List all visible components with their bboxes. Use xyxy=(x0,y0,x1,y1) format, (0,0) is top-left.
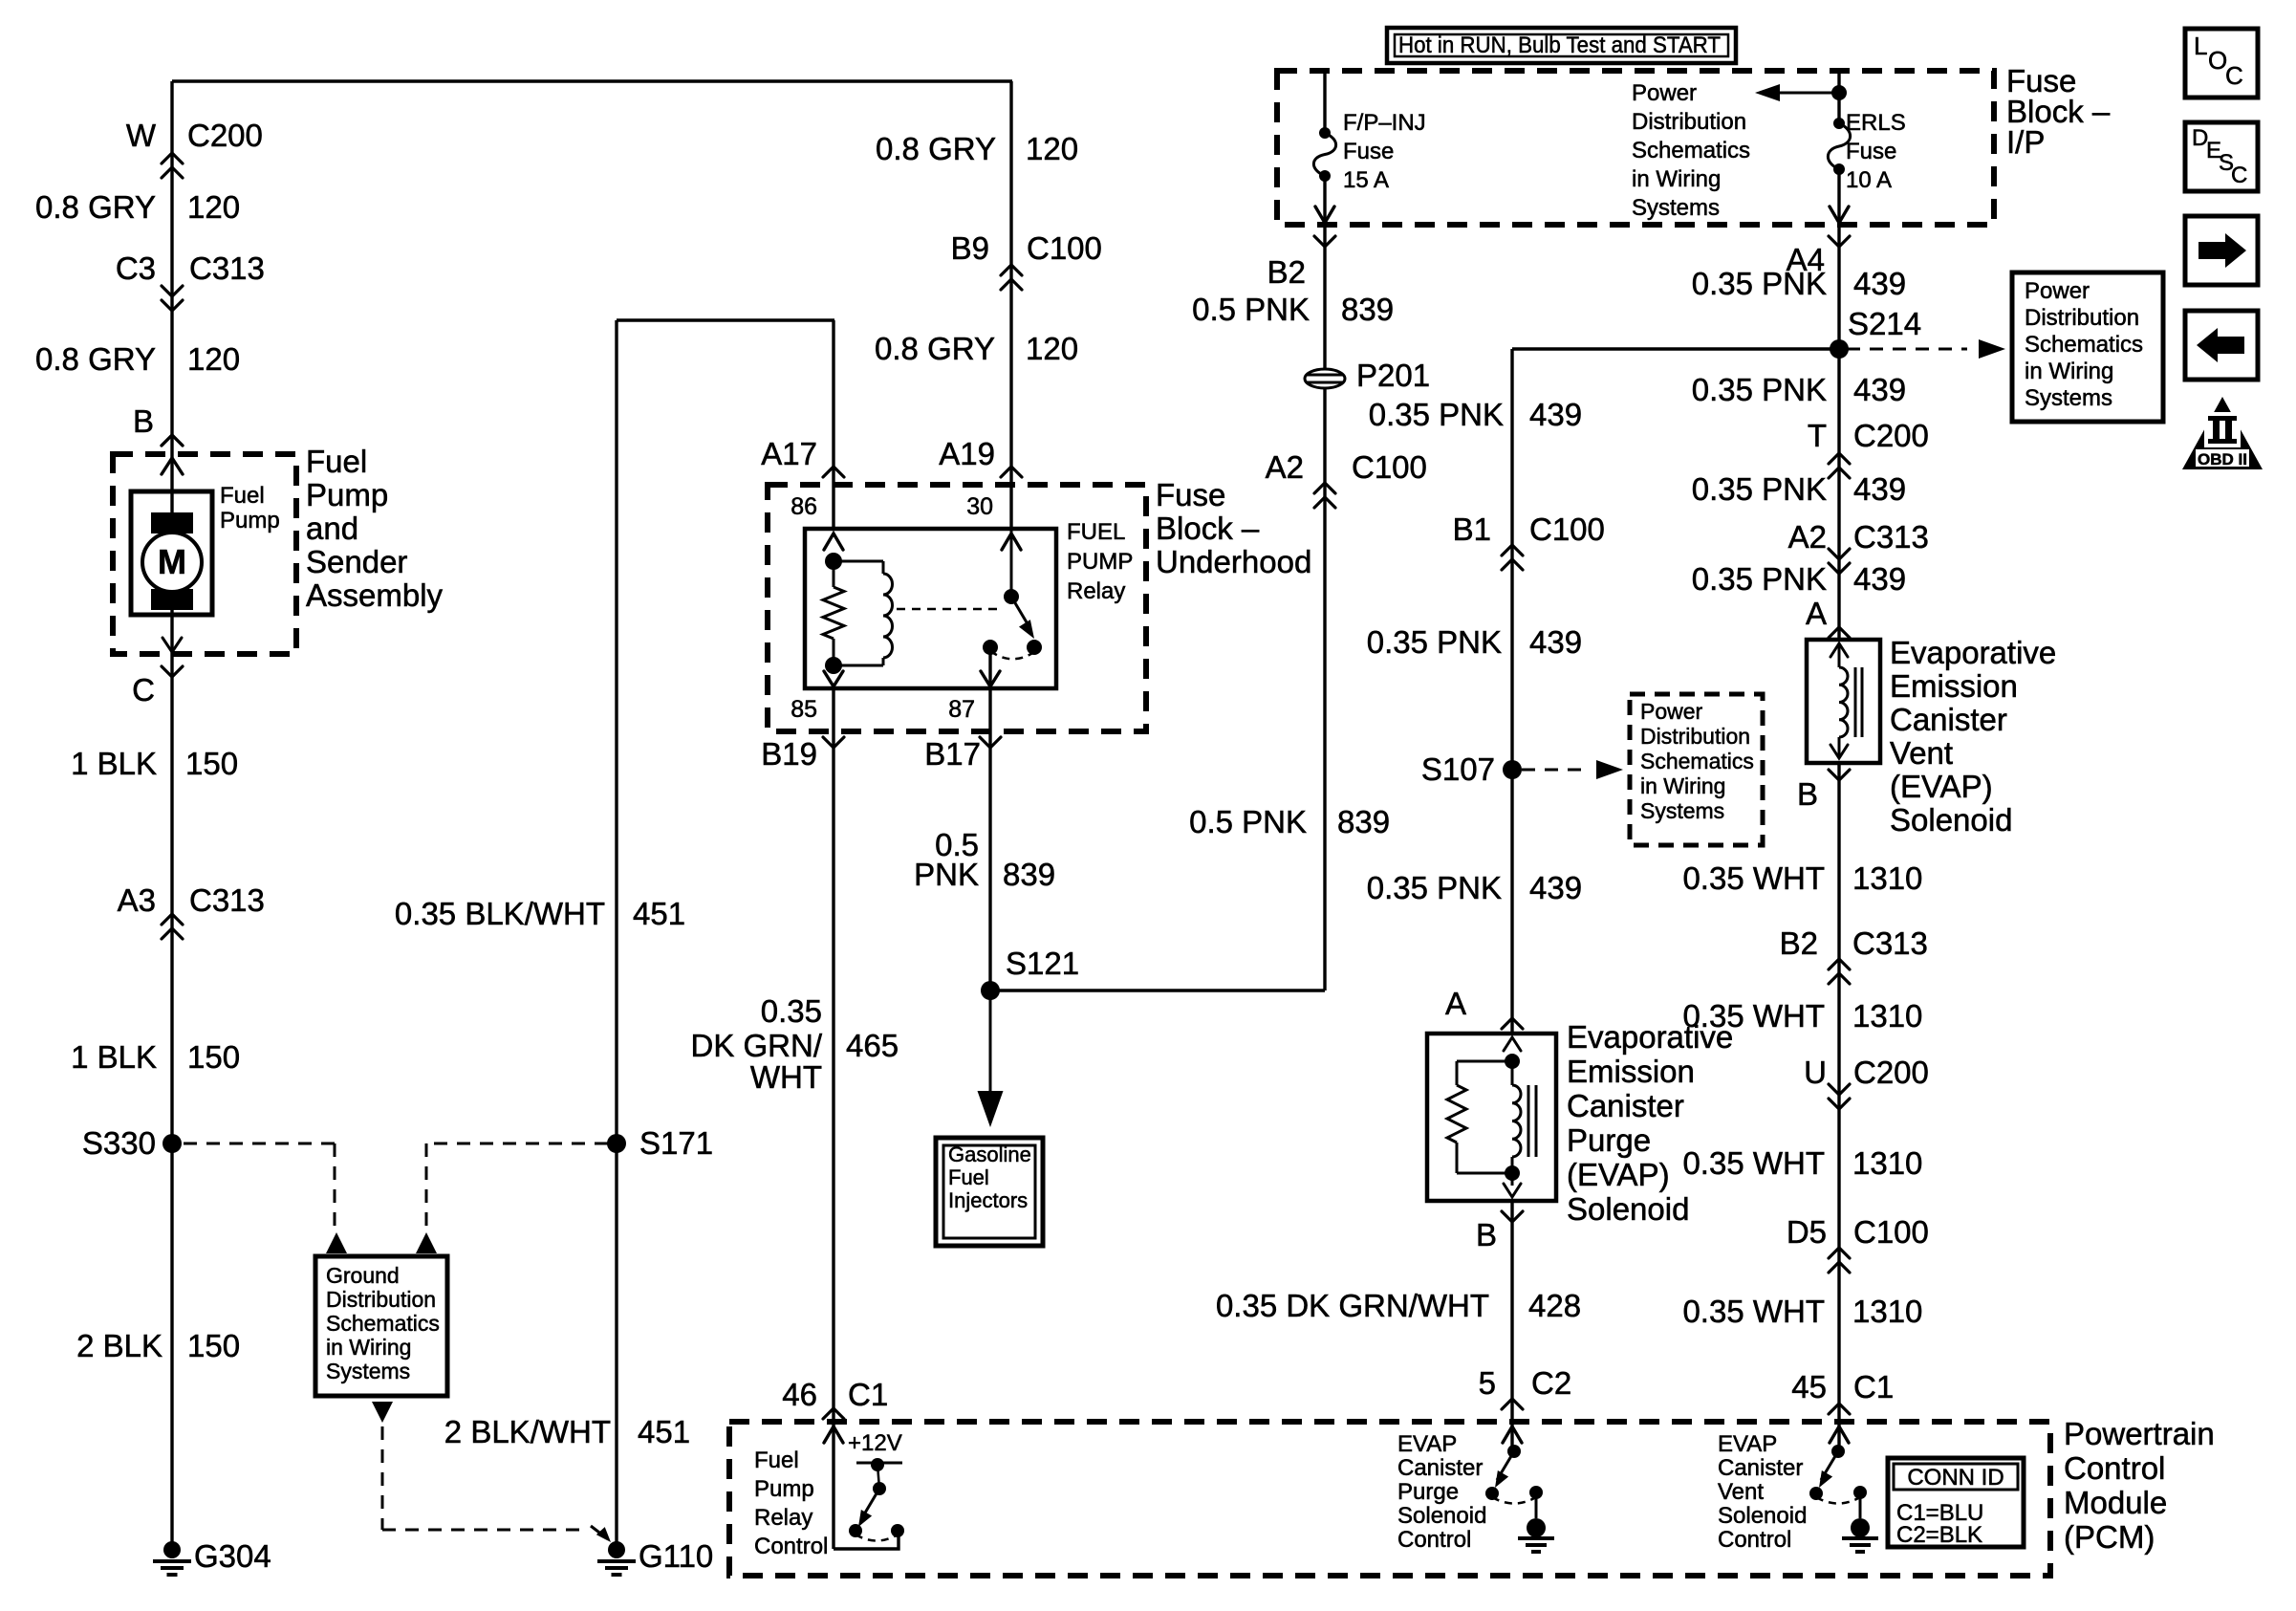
svg-text:86: 86 xyxy=(791,493,817,520)
svg-text:439: 439 xyxy=(1529,870,1582,905)
svg-text:B: B xyxy=(133,403,154,439)
svg-text:Control: Control xyxy=(1397,1527,1471,1553)
svg-text:Systems: Systems xyxy=(326,1359,410,1383)
svg-text:0.35 BLK/WHT: 0.35 BLK/WHT xyxy=(395,896,605,931)
svg-text:C1: C1 xyxy=(1853,1369,1894,1404)
svg-text:C100: C100 xyxy=(1529,512,1605,547)
svg-text:Vent: Vent xyxy=(1718,1479,1764,1505)
svg-text:A17: A17 xyxy=(761,436,817,471)
svg-text:Power: Power xyxy=(1632,80,1697,106)
svg-text:30: 30 xyxy=(966,493,993,520)
svg-text:2 BLK: 2 BLK xyxy=(76,1328,162,1363)
svg-text:0.35 PNK: 0.35 PNK xyxy=(1367,870,1502,905)
svg-text:DK GRN/: DK GRN/ xyxy=(690,1028,822,1063)
svg-text:CONN ID: CONN ID xyxy=(1907,1465,2004,1491)
svg-text:0.35: 0.35 xyxy=(761,993,822,1029)
svg-text:1310: 1310 xyxy=(1852,1294,1922,1329)
svg-text:0.35 WHT: 0.35 WHT xyxy=(1682,1145,1825,1181)
svg-text:451: 451 xyxy=(638,1414,690,1449)
svg-text:Ground: Ground xyxy=(326,1263,400,1288)
svg-text:A2: A2 xyxy=(1266,449,1304,485)
svg-text:Fuel: Fuel xyxy=(220,483,265,509)
svg-text:0.35 PNK: 0.35 PNK xyxy=(1692,561,1827,597)
svg-text:C: C xyxy=(2225,61,2243,90)
svg-text:S214: S214 xyxy=(1848,306,1921,341)
svg-text:C200: C200 xyxy=(1853,1055,1929,1090)
svg-text:in Wiring: in Wiring xyxy=(1632,166,1721,192)
svg-text:Relay: Relay xyxy=(1067,578,1125,604)
svg-text:C3: C3 xyxy=(116,250,156,286)
svg-text:439: 439 xyxy=(1853,471,1906,507)
svg-text:1310: 1310 xyxy=(1852,998,1922,1034)
svg-text:S107: S107 xyxy=(1421,751,1495,787)
svg-text:A4: A4 xyxy=(1787,242,1825,277)
svg-text:120: 120 xyxy=(187,341,240,377)
svg-text:0.35 PNK: 0.35 PNK xyxy=(1692,372,1827,407)
svg-text:PNK: PNK xyxy=(914,857,979,892)
svg-text:(PCM): (PCM) xyxy=(2064,1519,2155,1555)
svg-text:C313: C313 xyxy=(1853,519,1929,555)
svg-text:B2: B2 xyxy=(1267,254,1306,290)
svg-text:Distribution: Distribution xyxy=(1640,724,1750,749)
svg-text:(EVAP): (EVAP) xyxy=(1567,1157,1670,1192)
svg-text:OBD II: OBD II xyxy=(2198,450,2247,468)
svg-text:FUEL: FUEL xyxy=(1067,519,1125,545)
svg-text:U: U xyxy=(1804,1055,1827,1090)
svg-text:120: 120 xyxy=(1026,331,1078,366)
svg-text:Hot in RUN, Bulb Test and STAR: Hot in RUN, Bulb Test and START xyxy=(1398,33,1721,58)
svg-text:I/P: I/P xyxy=(2006,124,2045,160)
svg-text:Fuel: Fuel xyxy=(754,1448,799,1473)
svg-text:439: 439 xyxy=(1853,561,1906,597)
svg-text:C313: C313 xyxy=(1852,925,1928,961)
svg-text:Emission: Emission xyxy=(1890,668,2018,704)
svg-text:Powertrain: Powertrain xyxy=(2064,1416,2215,1451)
svg-text:(EVAP): (EVAP) xyxy=(1890,769,1993,804)
svg-text:Block –: Block – xyxy=(1156,511,1260,546)
svg-text:0.35 PNK: 0.35 PNK xyxy=(1369,397,1504,432)
svg-text:C100: C100 xyxy=(1853,1214,1929,1250)
svg-text:A: A xyxy=(1806,596,1827,631)
svg-text:15 A: 15 A xyxy=(1343,167,1389,193)
svg-text:Solenoid: Solenoid xyxy=(1718,1503,1807,1529)
svg-text:Control: Control xyxy=(754,1534,828,1559)
svg-text:Evaporative: Evaporative xyxy=(1890,635,2056,670)
svg-text:428: 428 xyxy=(1528,1288,1581,1323)
svg-text:0.35 WHT: 0.35 WHT xyxy=(1682,1294,1825,1329)
svg-text:M: M xyxy=(158,542,186,581)
svg-text:B19: B19 xyxy=(761,736,817,772)
svg-text:1 BLK: 1 BLK xyxy=(71,746,157,781)
svg-text:C200: C200 xyxy=(1853,418,1929,453)
svg-text:46: 46 xyxy=(782,1377,817,1412)
svg-text:Underhood: Underhood xyxy=(1156,544,1311,579)
svg-text:C100: C100 xyxy=(1352,449,1427,485)
svg-text:in Wiring: in Wiring xyxy=(326,1335,411,1360)
svg-text:2 BLK/WHT: 2 BLK/WHT xyxy=(444,1414,611,1449)
svg-text:Fuse: Fuse xyxy=(1156,477,1225,512)
svg-text:Schematics: Schematics xyxy=(1640,749,1754,773)
svg-text:Pump: Pump xyxy=(306,477,388,512)
svg-text:Distribution: Distribution xyxy=(1632,109,1746,135)
svg-text:439: 439 xyxy=(1853,266,1906,301)
svg-text:ERLS: ERLS xyxy=(1846,110,1906,136)
svg-text:839: 839 xyxy=(1003,857,1055,892)
svg-text:439: 439 xyxy=(1529,397,1582,432)
svg-text:EVAP: EVAP xyxy=(1397,1431,1457,1457)
svg-text:A: A xyxy=(1445,986,1466,1021)
svg-text:B: B xyxy=(1476,1217,1497,1252)
svg-text:0.5 PNK: 0.5 PNK xyxy=(1192,292,1310,327)
svg-text:B2: B2 xyxy=(1780,925,1818,961)
svg-text:C313: C313 xyxy=(189,250,265,286)
svg-text:Relay: Relay xyxy=(754,1505,812,1531)
svg-text:1310: 1310 xyxy=(1852,860,1922,896)
svg-text:G304: G304 xyxy=(194,1538,271,1574)
svg-text:Canister: Canister xyxy=(1567,1088,1684,1123)
svg-text:S171: S171 xyxy=(639,1125,713,1161)
svg-text:Control: Control xyxy=(1718,1527,1791,1553)
svg-text:Module: Module xyxy=(2064,1485,2167,1520)
svg-text:F/P–INJ: F/P–INJ xyxy=(1343,110,1426,136)
svg-text:87: 87 xyxy=(948,696,975,723)
svg-text:Schematics: Schematics xyxy=(326,1311,440,1336)
svg-text:0.35 PNK: 0.35 PNK xyxy=(1692,471,1827,507)
svg-text:G110: G110 xyxy=(639,1538,713,1574)
svg-text:0.8 GRY: 0.8 GRY xyxy=(875,331,995,366)
svg-text:Systems: Systems xyxy=(2025,385,2112,411)
svg-text:and: and xyxy=(306,511,358,546)
svg-text:Schematics: Schematics xyxy=(1632,138,1750,163)
svg-text:Assembly: Assembly xyxy=(306,577,444,613)
svg-text:439: 439 xyxy=(1529,624,1582,660)
svg-text:in Wiring: in Wiring xyxy=(2025,359,2113,384)
svg-text:C: C xyxy=(2231,163,2247,188)
svg-text:Gasoline: Gasoline xyxy=(948,1143,1031,1166)
svg-text:Fuse: Fuse xyxy=(1343,139,1394,164)
svg-text:L: L xyxy=(2194,32,2207,60)
svg-text:10 A: 10 A xyxy=(1846,167,1892,193)
svg-text:Pump: Pump xyxy=(754,1476,814,1502)
svg-text:B17: B17 xyxy=(924,736,981,772)
svg-text:Schematics: Schematics xyxy=(2025,332,2143,358)
svg-text:150: 150 xyxy=(187,1039,240,1075)
svg-text:Canister: Canister xyxy=(1718,1455,1803,1481)
svg-text:C2: C2 xyxy=(1531,1365,1571,1401)
svg-text:S330: S330 xyxy=(82,1125,156,1161)
svg-text:A2: A2 xyxy=(1788,519,1827,555)
svg-text:120: 120 xyxy=(1026,131,1078,166)
svg-text:B1: B1 xyxy=(1453,512,1491,547)
svg-text:Fuse: Fuse xyxy=(1846,139,1896,164)
svg-text:EVAP: EVAP xyxy=(1718,1431,1777,1457)
svg-text:0.8 GRY: 0.8 GRY xyxy=(876,131,996,166)
svg-text:A3: A3 xyxy=(118,882,156,918)
svg-text:WHT: WHT xyxy=(750,1059,822,1095)
svg-text:Systems: Systems xyxy=(1632,195,1720,221)
svg-text:Solenoid: Solenoid xyxy=(1567,1191,1689,1227)
svg-text:465: 465 xyxy=(846,1028,899,1063)
svg-text:0.35 PNK: 0.35 PNK xyxy=(1367,624,1502,660)
svg-text:1310: 1310 xyxy=(1852,1145,1922,1181)
svg-text:Purge: Purge xyxy=(1397,1479,1459,1505)
svg-text:Solenoid: Solenoid xyxy=(1397,1503,1486,1529)
svg-text:85: 85 xyxy=(791,696,817,723)
svg-text:+12V: +12V xyxy=(848,1430,902,1456)
svg-text:Fuel: Fuel xyxy=(948,1165,989,1189)
svg-text:B9: B9 xyxy=(951,230,989,266)
svg-text:5: 5 xyxy=(1479,1365,1496,1401)
svg-text:Power: Power xyxy=(1640,699,1703,724)
svg-text:Pump: Pump xyxy=(220,508,280,533)
svg-text:Evaporative: Evaporative xyxy=(1567,1019,1733,1055)
svg-text:D5: D5 xyxy=(1787,1214,1827,1250)
svg-text:A19: A19 xyxy=(939,436,995,471)
svg-text:839: 839 xyxy=(1341,292,1394,327)
svg-text:S121: S121 xyxy=(1006,946,1079,981)
svg-text:451: 451 xyxy=(633,896,685,931)
svg-text:Canister: Canister xyxy=(1397,1455,1483,1481)
svg-text:120: 120 xyxy=(187,189,240,225)
svg-text:Purge: Purge xyxy=(1567,1122,1651,1158)
svg-text:Systems: Systems xyxy=(1640,798,1724,823)
svg-text:Control: Control xyxy=(2064,1450,2165,1486)
svg-text:B: B xyxy=(1797,776,1818,812)
svg-text:W: W xyxy=(126,118,157,153)
svg-text:T: T xyxy=(1808,418,1827,453)
svg-text:C100: C100 xyxy=(1027,230,1102,266)
svg-text:C1: C1 xyxy=(848,1377,888,1412)
svg-text:P201: P201 xyxy=(1356,358,1430,393)
svg-text:Emission: Emission xyxy=(1567,1054,1695,1089)
svg-text:0.5 PNK: 0.5 PNK xyxy=(1189,804,1307,839)
svg-text:C313: C313 xyxy=(189,882,265,918)
svg-text:in Wiring: in Wiring xyxy=(1640,773,1725,798)
svg-text:Canister: Canister xyxy=(1890,702,2007,737)
svg-text:Vent: Vent xyxy=(1890,735,1953,771)
svg-text:Sender: Sender xyxy=(306,544,407,579)
svg-text:150: 150 xyxy=(185,746,238,781)
svg-text:0.8 GRY: 0.8 GRY xyxy=(35,189,156,225)
svg-text:Fuel: Fuel xyxy=(306,444,367,479)
svg-text:PUMP: PUMP xyxy=(1067,549,1133,575)
svg-text:Injectors: Injectors xyxy=(948,1188,1028,1212)
svg-text:Solenoid: Solenoid xyxy=(1890,802,2012,838)
svg-text:1 BLK: 1 BLK xyxy=(71,1039,157,1075)
svg-text:0.35 DK GRN/WHT: 0.35 DK GRN/WHT xyxy=(1216,1288,1489,1323)
svg-text:439: 439 xyxy=(1853,372,1906,407)
svg-text:0.35 WHT: 0.35 WHT xyxy=(1682,860,1825,896)
svg-text:C2=BLK: C2=BLK xyxy=(1896,1522,1982,1548)
svg-text:Distribution: Distribution xyxy=(2025,305,2139,331)
svg-text:Distribution: Distribution xyxy=(326,1287,436,1312)
svg-text:C: C xyxy=(132,672,155,708)
svg-text:839: 839 xyxy=(1337,804,1390,839)
svg-text:C200: C200 xyxy=(187,118,263,153)
svg-text:45: 45 xyxy=(1791,1369,1827,1404)
svg-text:0.8 GRY: 0.8 GRY xyxy=(35,341,156,377)
svg-text:150: 150 xyxy=(187,1328,240,1363)
svg-text:Power: Power xyxy=(2025,278,2090,304)
